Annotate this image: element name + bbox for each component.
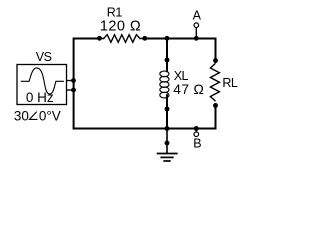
VS pin top	[67, 80, 74, 82]
resistor RL top pin dot	[213, 58, 218, 63]
VS pin dot bottom	[71, 88, 76, 93]
inductor XL top pin dot	[165, 58, 170, 63]
inductor XL coil	[160, 71, 169, 98]
junction dot node A	[194, 36, 199, 41]
VS pin bottom	[67, 89, 74, 91]
ground bar 2	[160, 156, 173, 158]
VS sine wave	[21, 68, 64, 94]
node B stem	[195, 129, 197, 133]
ground bar 1	[157, 153, 178, 155]
VS pin dot top	[71, 78, 76, 83]
ground bar 3	[163, 160, 170, 162]
svg-text:30: 30	[14, 108, 29, 123]
wire left vertical	[73, 38, 75, 129]
wire right vertical	[215, 38, 217, 130]
node B junction dot	[194, 126, 199, 131]
svg-text:RL: RL	[222, 76, 238, 90]
svg-text:120 Ω: 120 Ω	[100, 18, 141, 34]
svg-text:B: B	[193, 137, 201, 151]
wire bottom horizontal	[73, 128, 216, 130]
svg-text:0°V: 0°V	[39, 108, 61, 123]
inductor XL bottom pin dot	[165, 107, 170, 112]
junction dot left of R1	[97, 36, 102, 41]
node A terminal circle	[194, 23, 199, 28]
ground stem	[166, 129, 168, 154]
junction dot ground top	[165, 126, 170, 131]
resistor R1 zigzag	[100, 35, 145, 43]
resistor RL bottom pin dot	[213, 103, 218, 108]
svg-text:A: A	[193, 9, 202, 23]
node B terminal circle	[194, 132, 199, 137]
wire XL branch vertical	[166, 39, 168, 129]
svg-text:VS: VS	[36, 50, 52, 64]
svg-text:0 Hz: 0 Hz	[26, 90, 54, 105]
wire top horizontal	[74, 38, 216, 40]
svg-text:R1: R1	[107, 5, 123, 19]
angle symbol	[30, 112, 38, 120]
junction dot right of R1	[142, 36, 147, 41]
junction dot XL top	[165, 36, 170, 41]
svg-text:47 Ω: 47 Ω	[173, 82, 204, 97]
ground pin dot	[165, 141, 170, 146]
svg-text:XL: XL	[174, 69, 189, 83]
resistor RL zigzag	[210, 63, 219, 101]
node A stem	[195, 27, 197, 39]
voltage source VS box	[17, 65, 67, 105]
